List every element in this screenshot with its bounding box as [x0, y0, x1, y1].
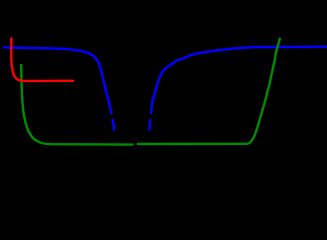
blue curve right dashed asymptote segment — [148, 119, 151, 131]
green curve left arm — [21, 64, 133, 145]
red curve — [11, 38, 74, 82]
blue curve left branch (solid) — [3, 47, 112, 114]
blue curve right branch (solid) — [151, 47, 327, 114]
green curve right arm — [137, 38, 280, 144]
blue curve left dashed asymptote segment — [113, 119, 115, 131]
